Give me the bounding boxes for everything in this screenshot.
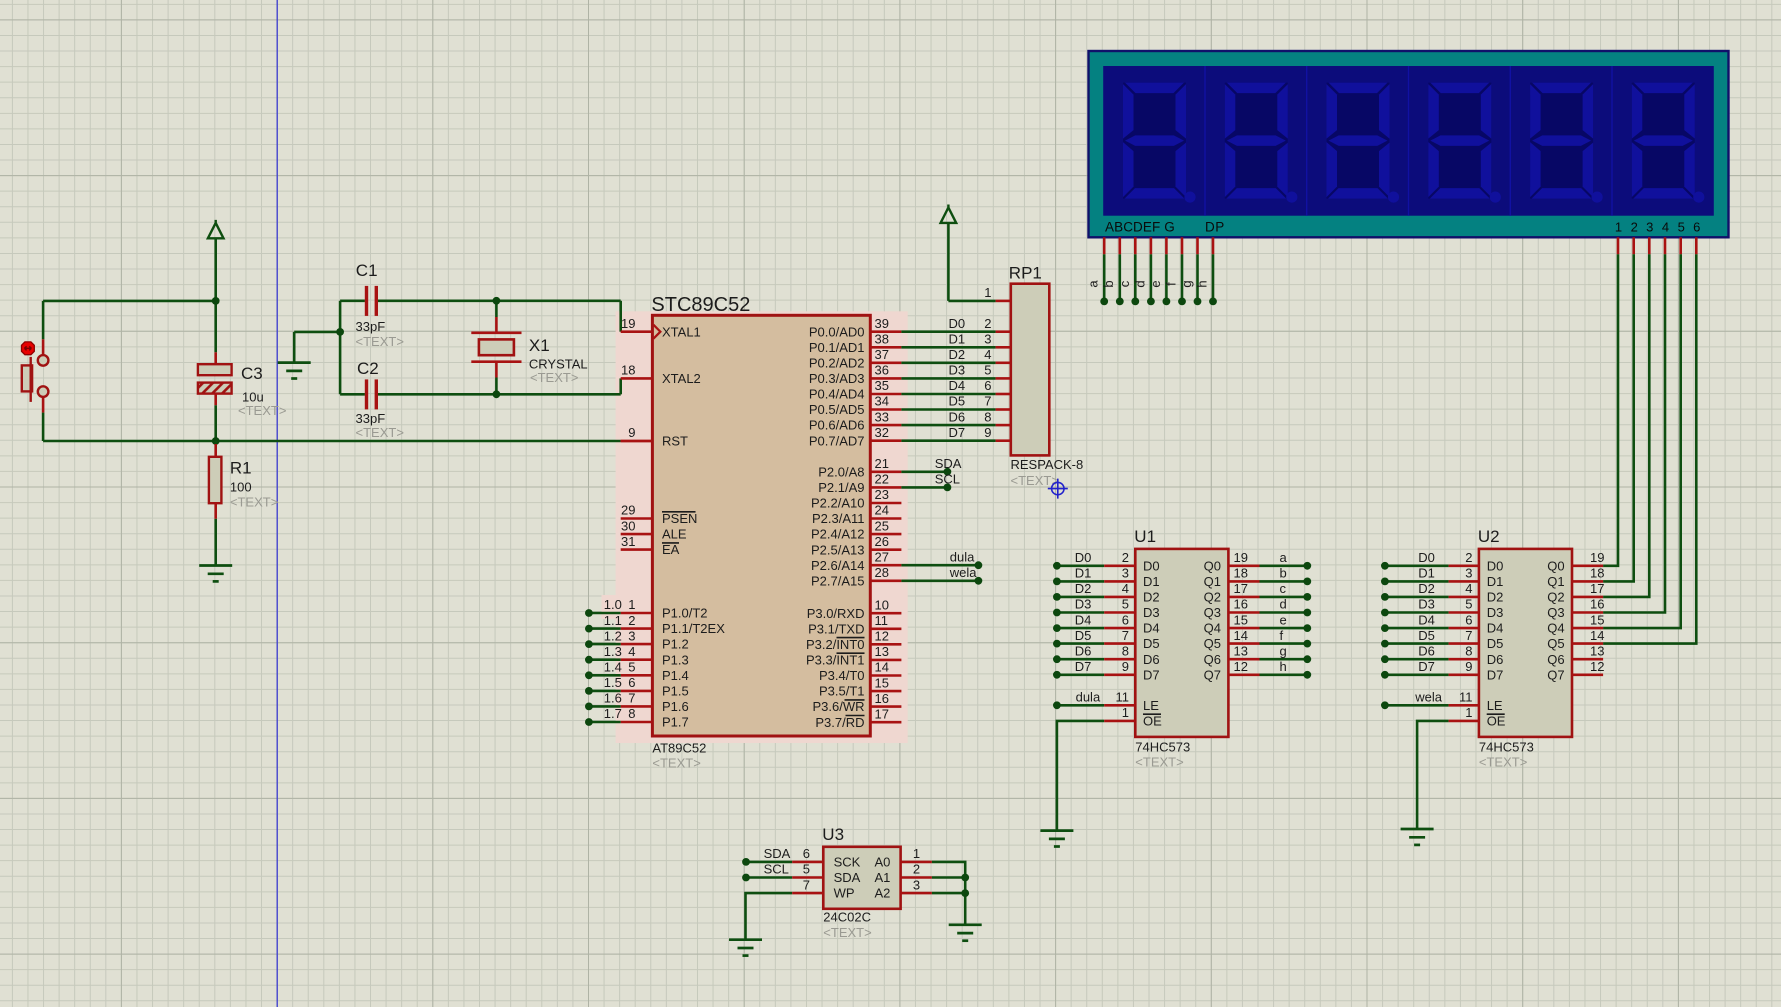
svg-text:X1: X1 [529, 336, 550, 355]
svg-text:33: 33 [875, 409, 889, 424]
svg-text:d: d [1280, 597, 1287, 612]
svg-text:2: 2 [984, 316, 991, 331]
svg-text:U2: U2 [1478, 527, 1500, 546]
svg-text:P2.0/A8: P2.0/A8 [818, 464, 864, 479]
svg-text:16: 16 [1590, 597, 1604, 612]
svg-text:SDA: SDA [764, 846, 791, 861]
svg-text:31: 31 [621, 534, 635, 549]
svg-text:<TEXT>: <TEXT> [356, 425, 404, 440]
svg-text:1.4: 1.4 [604, 660, 622, 675]
svg-text:LE: LE [1143, 698, 1159, 713]
svg-text:g: g [1179, 280, 1194, 287]
svg-text:22: 22 [875, 472, 889, 487]
svg-text:11: 11 [1459, 690, 1473, 705]
svg-text:P1.5: P1.5 [662, 684, 689, 699]
svg-text:Q4: Q4 [1204, 621, 1221, 636]
svg-text:12: 12 [1590, 659, 1604, 674]
svg-text:6: 6 [628, 675, 635, 690]
svg-text:4: 4 [984, 347, 991, 362]
svg-text:2: 2 [913, 862, 920, 877]
svg-text:4: 4 [628, 644, 635, 659]
svg-text:15: 15 [1234, 612, 1248, 627]
svg-text:f: f [1164, 282, 1179, 286]
svg-text:SDA: SDA [834, 870, 861, 885]
svg-text:D5: D5 [1143, 636, 1160, 651]
svg-text:3: 3 [1646, 220, 1653, 235]
svg-text:D4: D4 [1487, 621, 1504, 636]
svg-text:D7: D7 [1418, 659, 1435, 674]
svg-text:2: 2 [1122, 550, 1129, 565]
svg-text:P2.6/A14: P2.6/A14 [811, 558, 865, 573]
svg-text:WP: WP [834, 886, 855, 901]
svg-text:Q7: Q7 [1547, 667, 1564, 682]
svg-text:SCK: SCK [834, 855, 861, 870]
svg-text:1: 1 [1122, 705, 1129, 720]
svg-text:P1.0/T2: P1.0/T2 [662, 606, 708, 621]
svg-text:14: 14 [1234, 628, 1248, 643]
svg-text:2: 2 [1631, 220, 1638, 235]
svg-text:A1: A1 [874, 870, 890, 885]
svg-text:<TEXT>: <TEXT> [530, 370, 578, 385]
svg-text:D5: D5 [1418, 628, 1435, 643]
svg-text:Q1: Q1 [1547, 574, 1564, 589]
svg-text:Q2: Q2 [1547, 590, 1564, 605]
svg-text:D4: D4 [1418, 612, 1435, 627]
svg-text:Q5: Q5 [1547, 636, 1564, 651]
svg-text:e: e [1280, 612, 1287, 627]
svg-text:D6: D6 [1143, 652, 1160, 667]
svg-text:P1.4: P1.4 [662, 668, 689, 683]
svg-text:5: 5 [1678, 220, 1685, 235]
svg-text:P1.7: P1.7 [662, 715, 689, 730]
svg-text:5: 5 [984, 363, 991, 378]
svg-text:C1: C1 [356, 261, 378, 280]
svg-text:8: 8 [628, 706, 635, 721]
svg-text:15: 15 [1590, 612, 1604, 627]
svg-text:1: 1 [1465, 705, 1472, 720]
svg-text:c: c [1117, 280, 1132, 287]
svg-text:17: 17 [1234, 581, 1248, 596]
svg-text:P3.6/WR: P3.6/WR [812, 699, 864, 714]
svg-text:19: 19 [1590, 550, 1604, 565]
svg-text:b: b [1101, 280, 1116, 287]
svg-text:9: 9 [628, 425, 635, 440]
svg-text:Q6: Q6 [1547, 652, 1564, 667]
svg-text:1: 1 [1615, 220, 1622, 235]
svg-text:10: 10 [875, 597, 889, 612]
svg-text:D1: D1 [1418, 566, 1435, 581]
svg-text:P2.1/A9: P2.1/A9 [818, 480, 864, 495]
svg-text:f: f [1280, 628, 1284, 643]
svg-text:16: 16 [1234, 597, 1248, 612]
svg-text:Q5: Q5 [1204, 636, 1221, 651]
svg-text:D2: D2 [1487, 590, 1504, 605]
svg-text:39: 39 [875, 316, 889, 331]
svg-text:17: 17 [875, 706, 889, 721]
svg-text:34: 34 [875, 394, 889, 409]
svg-text:Q4: Q4 [1547, 621, 1564, 636]
svg-text:17: 17 [1590, 581, 1604, 596]
svg-text:b: b [1280, 566, 1287, 581]
svg-text:38: 38 [875, 332, 889, 347]
svg-text:3: 3 [1465, 566, 1472, 581]
svg-text:a: a [1086, 280, 1101, 288]
svg-text:3: 3 [1122, 566, 1129, 581]
svg-text:D2: D2 [1143, 590, 1160, 605]
svg-text:37: 37 [875, 347, 889, 362]
svg-text:ABCDEF G: ABCDEF G [1105, 220, 1175, 235]
svg-text:6: 6 [984, 378, 991, 393]
svg-text:P0.6/AD6: P0.6/AD6 [809, 418, 865, 433]
svg-text:P2.3/A11: P2.3/A11 [812, 511, 865, 526]
svg-text:7: 7 [803, 877, 810, 892]
svg-text:14: 14 [875, 660, 889, 675]
svg-text:<TEXT>: <TEXT> [230, 495, 278, 510]
svg-text:P2.4/A12: P2.4/A12 [811, 527, 865, 542]
svg-text:P0.2/AD2: P0.2/AD2 [809, 355, 865, 370]
svg-text:D5: D5 [1075, 628, 1092, 643]
svg-text:12: 12 [875, 629, 889, 644]
svg-text:100: 100 [230, 480, 252, 495]
svg-text:9: 9 [1122, 659, 1129, 674]
svg-text:P0.1/AD1: P0.1/AD1 [809, 340, 865, 355]
svg-text:13: 13 [875, 644, 889, 659]
svg-text:<TEXT>: <TEXT> [823, 925, 871, 940]
svg-text:D3: D3 [1487, 605, 1504, 620]
svg-text:8: 8 [984, 409, 991, 424]
svg-text:DP: DP [1205, 220, 1225, 235]
svg-text:U3: U3 [822, 825, 844, 844]
svg-text:<TEXT>: <TEXT> [238, 403, 286, 418]
svg-text:3: 3 [984, 332, 991, 347]
svg-text:1.5: 1.5 [604, 675, 622, 690]
svg-text:d: d [1132, 280, 1147, 287]
svg-text:P3.3/INT1: P3.3/INT1 [806, 653, 865, 668]
svg-text:D5: D5 [949, 394, 966, 409]
svg-text:R1: R1 [230, 459, 252, 478]
svg-text:PSEN: PSEN [662, 511, 697, 526]
svg-text:SCL: SCL [764, 862, 789, 877]
svg-text:P1.1/T2EX: P1.1/T2EX [662, 621, 725, 636]
svg-text:11: 11 [875, 613, 889, 628]
svg-text:D1: D1 [1487, 574, 1504, 589]
svg-text:7: 7 [1122, 628, 1129, 643]
svg-text:24: 24 [875, 503, 889, 518]
svg-text:SDA: SDA [935, 456, 962, 471]
svg-text:5: 5 [628, 660, 635, 675]
svg-text:3: 3 [628, 628, 635, 643]
svg-text:27: 27 [875, 550, 889, 565]
svg-text:P0.4/AD4: P0.4/AD4 [809, 387, 865, 402]
svg-text:P0.0/AD0: P0.0/AD0 [809, 324, 865, 339]
svg-text:1: 1 [984, 285, 991, 300]
svg-text:dula: dula [1076, 690, 1101, 705]
svg-text:OE: OE [1143, 714, 1162, 729]
svg-text:D6: D6 [949, 409, 966, 424]
svg-text:h: h [1280, 659, 1287, 674]
svg-text:30: 30 [621, 518, 635, 533]
svg-text:13: 13 [1590, 643, 1604, 658]
svg-text:C2: C2 [357, 359, 379, 378]
svg-text:2: 2 [1465, 550, 1472, 565]
svg-text:8: 8 [1122, 643, 1129, 658]
svg-text:32: 32 [875, 425, 889, 440]
svg-text:D0: D0 [1075, 550, 1092, 565]
svg-text:74HC573: 74HC573 [1479, 740, 1534, 755]
svg-text:4: 4 [1122, 581, 1129, 596]
svg-text:D7: D7 [1143, 667, 1160, 682]
svg-text:P0.3/AD3: P0.3/AD3 [809, 371, 865, 386]
svg-text:P2.5/A13: P2.5/A13 [811, 542, 865, 557]
svg-text:9: 9 [1465, 659, 1472, 674]
svg-text:33pF: 33pF [356, 411, 386, 426]
svg-text:SCL: SCL [935, 472, 960, 487]
svg-text:<TEXT>: <TEXT> [652, 756, 700, 771]
svg-text:D7: D7 [1075, 659, 1092, 674]
svg-text:1: 1 [913, 846, 920, 861]
svg-text:dula: dula [950, 550, 975, 565]
svg-text:6: 6 [1693, 220, 1700, 235]
svg-text:P3.4/T0: P3.4/T0 [819, 668, 865, 683]
svg-text:P3.1/TXD: P3.1/TXD [808, 621, 864, 636]
svg-text:7: 7 [628, 691, 635, 706]
svg-text:D6: D6 [1418, 643, 1435, 658]
svg-text:14: 14 [1590, 628, 1604, 643]
svg-text:28: 28 [875, 565, 889, 580]
svg-text:D3: D3 [1075, 597, 1092, 612]
svg-text:6: 6 [1122, 612, 1129, 627]
svg-text:D6: D6 [1487, 652, 1504, 667]
svg-text:Q3: Q3 [1204, 605, 1221, 620]
svg-text:4: 4 [1662, 220, 1669, 235]
svg-text:33pF: 33pF [356, 319, 386, 334]
svg-text:STC89C52: STC89C52 [651, 294, 750, 316]
svg-text:9: 9 [984, 425, 991, 440]
svg-text:1.0: 1.0 [604, 597, 622, 612]
svg-text:D0: D0 [1143, 558, 1160, 573]
svg-text:1.2: 1.2 [604, 628, 622, 643]
svg-text:A2: A2 [874, 886, 890, 901]
svg-text:D0: D0 [949, 316, 966, 331]
svg-text:1: 1 [628, 597, 635, 612]
svg-text:13: 13 [1234, 643, 1248, 658]
svg-text:RST: RST [662, 434, 688, 449]
svg-text:Q6: Q6 [1204, 652, 1221, 667]
svg-text:5: 5 [1465, 597, 1472, 612]
svg-text:<TEXT>: <TEXT> [1479, 755, 1527, 770]
svg-text:RP1: RP1 [1009, 264, 1042, 283]
svg-text:A0: A0 [874, 855, 890, 870]
svg-text:18: 18 [621, 363, 635, 378]
svg-text:5: 5 [803, 862, 810, 877]
svg-text:Q0: Q0 [1204, 558, 1221, 573]
svg-text:21: 21 [875, 456, 889, 471]
svg-text:XTAL2: XTAL2 [662, 371, 701, 386]
svg-text:wela: wela [1414, 690, 1443, 705]
svg-text:OE: OE [1487, 714, 1506, 729]
svg-text:P1.2: P1.2 [662, 637, 689, 652]
svg-text:74HC573: 74HC573 [1135, 740, 1190, 755]
svg-text:12: 12 [1234, 659, 1248, 674]
svg-text:AT89C52: AT89C52 [652, 741, 706, 756]
svg-text:16: 16 [875, 691, 889, 706]
svg-text:D2: D2 [1075, 581, 1092, 596]
svg-text:Q0: Q0 [1547, 558, 1564, 573]
svg-text:Q1: Q1 [1204, 574, 1221, 589]
svg-text:P3.7/RD: P3.7/RD [815, 715, 864, 730]
svg-text:EA: EA [662, 542, 680, 557]
svg-text:ALE: ALE [662, 527, 687, 542]
svg-text:4: 4 [1465, 581, 1472, 596]
svg-text:P3.5/T1: P3.5/T1 [819, 684, 865, 699]
svg-text:15: 15 [875, 675, 889, 690]
svg-text:D0: D0 [1487, 558, 1504, 573]
svg-text:Q7: Q7 [1204, 667, 1221, 682]
svg-text:D4: D4 [1143, 621, 1160, 636]
svg-text:e: e [1148, 280, 1163, 287]
svg-text:D0: D0 [1418, 550, 1435, 565]
svg-text:P1.3: P1.3 [662, 652, 689, 667]
svg-text:wela: wela [949, 565, 978, 580]
svg-text:LE: LE [1487, 698, 1503, 713]
svg-text:19: 19 [1234, 550, 1248, 565]
svg-text:5: 5 [1122, 597, 1129, 612]
svg-text:D4: D4 [1075, 612, 1092, 627]
svg-text:2: 2 [628, 613, 635, 628]
svg-text:P2.7/A15: P2.7/A15 [811, 573, 865, 588]
svg-text:1.1: 1.1 [604, 613, 622, 628]
svg-text:C3: C3 [241, 364, 263, 383]
svg-text:18: 18 [1590, 566, 1604, 581]
svg-text:D2: D2 [1418, 581, 1435, 596]
svg-text:1.7: 1.7 [604, 706, 622, 721]
svg-text:a: a [1280, 550, 1288, 565]
svg-text:D6: D6 [1075, 643, 1092, 658]
svg-text:P3.2/INT0: P3.2/INT0 [806, 637, 865, 652]
svg-text:D1: D1 [949, 332, 966, 347]
svg-text:P2.2/A10: P2.2/A10 [811, 496, 865, 511]
svg-text:XTAL1: XTAL1 [662, 324, 701, 339]
svg-text:D5: D5 [1487, 636, 1504, 651]
svg-text:24C02C: 24C02C [823, 910, 871, 925]
svg-text:18: 18 [1234, 566, 1248, 581]
svg-text:D2: D2 [949, 347, 966, 362]
svg-text:Q3: Q3 [1547, 605, 1564, 620]
svg-text:7: 7 [1465, 628, 1472, 643]
svg-text:25: 25 [875, 518, 889, 533]
svg-text:7: 7 [984, 394, 991, 409]
svg-text:35: 35 [875, 378, 889, 393]
svg-text:P0.7/AD7: P0.7/AD7 [809, 433, 865, 448]
svg-text:RESPACK-8: RESPACK-8 [1011, 457, 1084, 472]
svg-text:g: g [1280, 643, 1287, 658]
svg-text:D1: D1 [1075, 566, 1092, 581]
svg-text:D7: D7 [1487, 667, 1504, 682]
svg-text:23: 23 [875, 487, 889, 502]
svg-text:D4: D4 [949, 378, 966, 393]
svg-text:D3: D3 [1143, 605, 1160, 620]
svg-text:6: 6 [1465, 612, 1472, 627]
svg-text:3: 3 [913, 877, 920, 892]
svg-text:P0.5/AD5: P0.5/AD5 [809, 402, 865, 417]
svg-text:P1.6: P1.6 [662, 699, 689, 714]
svg-text:h: h [1195, 280, 1210, 287]
svg-text:19: 19 [621, 316, 635, 331]
svg-text:<TEXT>: <TEXT> [356, 334, 404, 349]
svg-text:D1: D1 [1143, 574, 1160, 589]
svg-text:D3: D3 [949, 363, 966, 378]
svg-text:36: 36 [875, 363, 889, 378]
svg-text:Q2: Q2 [1204, 590, 1221, 605]
svg-text:6: 6 [803, 846, 810, 861]
svg-text:c: c [1280, 581, 1287, 596]
svg-text:D7: D7 [949, 425, 966, 440]
svg-text:8: 8 [1465, 643, 1472, 658]
svg-text:11: 11 [1116, 690, 1130, 705]
svg-text:29: 29 [621, 503, 635, 518]
svg-text:1.6: 1.6 [604, 691, 622, 706]
svg-text:<TEXT>: <TEXT> [1135, 755, 1183, 770]
svg-text:26: 26 [875, 534, 889, 549]
svg-text:D3: D3 [1418, 597, 1435, 612]
svg-text:1.3: 1.3 [604, 644, 622, 659]
svg-text:U1: U1 [1134, 527, 1156, 546]
svg-text:P3.0/RXD: P3.0/RXD [807, 606, 865, 621]
